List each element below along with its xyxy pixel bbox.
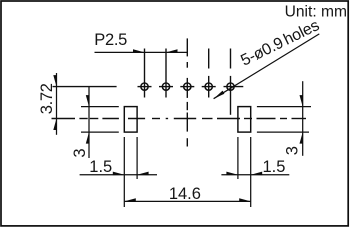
- dimension 3.72 line: [56, 73, 58, 135]
- svg-text:Unit: mm: Unit: mm: [285, 4, 347, 21]
- hole 3: [184, 83, 191, 90]
- left dim 3 arrow top: [86, 95, 90, 107]
- dimension 14.6 line: [124, 200, 250, 202]
- 3.72 arrow top: [53, 75, 57, 87]
- left dim 3 extension top: [81, 106, 119, 108]
- left dim 3 extension bottom: [81, 131, 119, 133]
- svg-text:P2.5: P2.5: [94, 31, 127, 49]
- leader line for holes callout: [214, 34, 320, 99]
- main horizontal center line: [52, 118, 307, 120]
- svg-text:3: 3: [71, 148, 89, 157]
- 1.5 left arrow right: [137, 172, 149, 176]
- svg-text:1.5: 1.5: [263, 158, 286, 176]
- right dim 3 arrow bottom: [300, 132, 304, 144]
- svg-text:1.5: 1.5: [89, 158, 112, 176]
- vertical center line: [186, 38, 188, 146]
- svg-text:3: 3: [283, 146, 301, 155]
- hole 5: [227, 83, 234, 90]
- left dim 3 line: [88, 87, 90, 158]
- hole row horizontal center line: [53, 86, 244, 88]
- 3.72 arrow bottom: [53, 119, 57, 131]
- hole 1 axis / extension line: [144, 49, 146, 98]
- hole 4: [205, 83, 212, 90]
- 1.5 left arrow left: [113, 172, 125, 176]
- extension below right rect left edge: [237, 137, 239, 179]
- hole 4 axis line through hole: [208, 76, 210, 98]
- hole 5 axis line upper dash: [230, 49, 232, 69]
- P2.5 arrow left: [133, 49, 145, 53]
- extension below left rect right edge: [136, 137, 138, 179]
- P2.5 arrow right: [166, 49, 178, 53]
- left dim 3 arrow bottom: [86, 132, 90, 144]
- left pad rectangle: [124, 107, 137, 133]
- right dim 3 arrow top: [300, 95, 304, 107]
- right dim 3 extension bottom: [257, 131, 309, 133]
- hole 2: [162, 83, 169, 90]
- extension below left rect left edge: [123, 137, 125, 207]
- 14.6 arrow left: [124, 198, 136, 202]
- leader arrowhead: [214, 91, 225, 99]
- hole 1: [141, 83, 148, 90]
- right pad rectangle: [238, 107, 251, 133]
- 1.5 right arrow left: [226, 172, 238, 176]
- dimension P2.5 line: [95, 51, 188, 53]
- right dim 3 extension top: [257, 106, 311, 108]
- hole 5 axis line through hole: [230, 76, 232, 115]
- dimension 1.5 right line: [221, 174, 289, 176]
- svg-text:14.6: 14.6: [169, 185, 201, 203]
- 14.6 arrow right: [239, 198, 251, 202]
- dimension 1.5 left line: [80, 174, 157, 176]
- 1.5 right arrow right: [251, 172, 263, 176]
- hole 2 axis / extension line: [165, 49, 167, 98]
- hole 4 axis line upper dash: [208, 49, 210, 69]
- right dim 3 line: [302, 81, 304, 156]
- extension below right rect right edge: [250, 137, 252, 207]
- svg-text:3.72: 3.72: [38, 83, 56, 114]
